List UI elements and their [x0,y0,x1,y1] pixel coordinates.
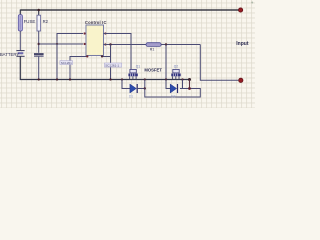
node T at riser [56,43,58,45]
node junction cathode2 [188,87,191,90]
label Control IC [85,20,107,25]
wire R2 bottom to cap [38,31,40,53]
wire D1 anode drop [122,80,130,89]
wire D1 cathode to riser [138,88,145,90]
svg-text:MOSFET: MOSFET [144,68,162,73]
transistor Q1 [128,69,137,79]
wire junction to IC pin2 [39,43,83,45]
label tag SC1261-1 [104,63,121,67]
wire bottom loop [145,89,201,98]
svg-text:D1: D1 [129,95,133,99]
wire right drop to output [200,45,238,81]
wire IC bottom-right pin [102,56,111,58]
wire riser down to rail [56,44,58,80]
label Q2 [174,64,178,68]
pin bottom-right [101,55,103,57]
pin left 2 [84,43,86,45]
svg-text:BATTERY: BATTERY [0,52,19,57]
svg-text:R1: R1 [150,47,155,51]
label BATTERY [0,52,19,57]
node junction mid left [38,43,40,45]
label MOSFET [144,68,162,73]
fuse FUSE [18,15,22,31]
wire R2 top drop [38,10,40,16]
node rail junctions [38,78,184,80]
wire riser x189 [189,80,191,89]
label R2 [43,19,49,24]
wire cap to bottom rail [38,57,40,80]
node rail end [188,78,191,81]
wire IC pin2 right [104,44,147,46]
wire IC bottom-left pin [70,57,88,80]
svg-text:FUSE: FUSE [24,19,36,24]
pin left 1 [84,32,86,34]
svg-text:Control IC: Control IC [85,20,107,25]
node junction after R1 [165,43,167,45]
wire drop x166 to rail [165,45,167,80]
wire top rail [20,9,238,11]
wire drop x110 to rail [110,45,112,80]
battery BT1 [16,51,24,57]
wire IC pin1 right to gate drop [104,34,132,70]
label D2 [171,95,175,99]
label R1 [150,47,155,51]
wire riser cathode to rail [144,80,146,89]
port output top [238,8,242,12]
diode D1 [130,84,138,93]
wire D2 anode drop [166,80,170,89]
wire fuse to battery [19,31,21,50]
node junction pin2 [109,43,111,45]
wire riser x182 [182,80,184,89]
pin bottom-left [86,55,88,57]
pin right 1 [104,32,106,34]
transistor Q2 [171,69,180,79]
svg-text:D2: D2 [171,95,175,99]
svg-text:SC1261: SC1261 [61,61,72,65]
label FUSE [24,19,36,24]
label D1 [129,95,133,99]
op-amp U1 Control IC body [86,25,104,56]
svg-text:Q1: Q1 [136,64,140,68]
artifact speck top-right [251,2,253,4]
diode D2 [170,84,178,93]
svg-text:Q2: Q2 [174,64,178,68]
svg-text:SC1261-1: SC1261-1 [105,63,119,67]
svg-text:Input: Input [236,41,249,47]
label Input [236,41,249,47]
capacitor C1 [34,53,44,57]
schematic paper background [0,0,255,108]
wire fuse top drop [19,10,21,15]
resistor R1 pill [146,43,161,47]
wire battery to bottom rail [20,57,189,80]
label tag SC1261 [60,61,73,65]
node junction top rail [37,9,40,12]
svg-text:R2: R2 [43,19,49,24]
port output bottom [239,78,243,82]
node junction cathode1 [144,87,146,89]
pin right 2 [104,43,106,45]
wire pill to corner [161,44,200,46]
resistor R2 [37,15,41,31]
wire riser to pin1 [57,34,83,45]
label Q1 [136,64,140,68]
